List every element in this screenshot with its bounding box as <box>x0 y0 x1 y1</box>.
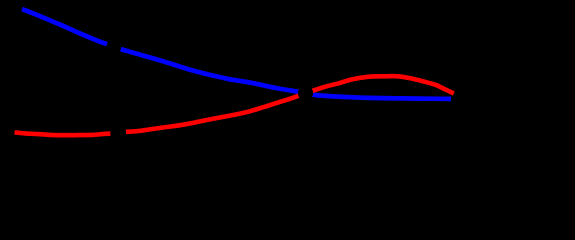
dot on red curve (black disc creating gap) <box>110 125 126 141</box>
dot at curve intersection (black disc creating gap) <box>298 86 313 101</box>
red curve (flat left, rises, arches over blue, falls at right) <box>15 76 454 135</box>
dot on blue curve (black disc creating gap) <box>106 39 121 54</box>
chart canvas <box>0 0 575 181</box>
blue curve (decreasing, convex, levels off right) <box>22 9 451 99</box>
